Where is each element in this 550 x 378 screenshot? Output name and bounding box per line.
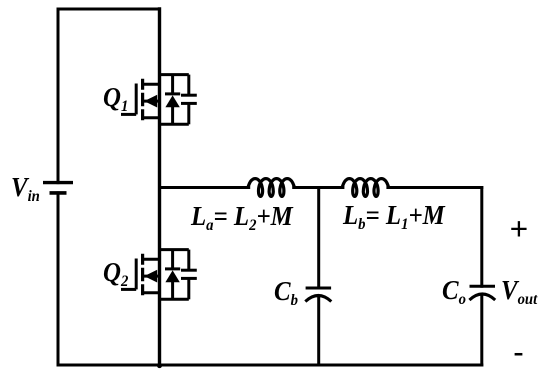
Q1 gate plate bbox=[135, 84, 138, 115]
Q1 snubber branch bottom wire bbox=[160, 123, 189, 126]
label Lb = L1+M bbox=[343, 202, 445, 233]
Q2 body diode cathode lead bbox=[171, 250, 174, 269]
Q2 body arrow bbox=[144, 270, 157, 283]
Q1 body diode cathode bar bbox=[165, 92, 180, 95]
Q2 body stub bbox=[143, 275, 160, 278]
Q1 drain stub bbox=[143, 83, 160, 86]
wire: top rail from Vin+ to Q1 drain bbox=[58, 8, 160, 11]
Q2 gate plate bbox=[135, 259, 138, 290]
wire: switch node to inductor La bbox=[160, 186, 249, 189]
label Q1 bbox=[103, 84, 128, 115]
label Q2 bbox=[103, 259, 128, 290]
label Vout bbox=[501, 277, 537, 308]
Q1 gate lead bbox=[121, 113, 136, 116]
wire: Cb branch lower bbox=[317, 297, 320, 365]
wire: La to Lb (node with Cb tap) bbox=[294, 186, 343, 189]
Q1 body stub bbox=[143, 100, 160, 103]
label output minus polarity bbox=[514, 337, 524, 367]
Q2 gate lead bbox=[121, 288, 136, 291]
capacitor Cb curved plate bbox=[305, 296, 331, 302]
Q1 snubber branch top wire bbox=[160, 73, 189, 76]
wire: bottom ground rail bbox=[58, 364, 482, 367]
Q2 body diode triangle bbox=[165, 270, 179, 282]
Q1 body diode cathode lead bbox=[171, 75, 174, 94]
Q1 parasitic capacitor top plate bbox=[181, 94, 197, 97]
Q2 source stub bbox=[143, 291, 160, 294]
label Vin bbox=[11, 174, 40, 205]
wire: left rail lower (Vin -) bbox=[57, 193, 60, 365]
wire: left rail upper (Vin +) bbox=[57, 9, 60, 183]
transistor Q1 MOSFET symbol bbox=[121, 79, 160, 120]
Q1 source stub bbox=[143, 116, 160, 119]
inductor La coil bbox=[248, 179, 294, 197]
Q2 parasitic capacitor top plate bbox=[181, 269, 197, 272]
Q1 body arrow bbox=[144, 95, 157, 108]
Q2 parasitic capacitor top lead bbox=[187, 250, 190, 271]
label output plus polarity bbox=[510, 214, 529, 247]
wire: right rail lower from Co to ground bbox=[480, 296, 483, 365]
capacitor Cb top plate bbox=[306, 287, 332, 290]
Q2 channel (dashed) bbox=[141, 254, 144, 295]
label Cb bbox=[274, 278, 298, 309]
Q2 snubber branch top wire bbox=[160, 248, 189, 251]
capacitor Co top plate bbox=[470, 285, 496, 288]
label La = L2+M bbox=[191, 203, 293, 234]
junction node: Q2 source at ground rail bbox=[157, 363, 162, 368]
Q2 drain stub bbox=[143, 258, 160, 261]
Q2 snubber branch bottom wire bbox=[160, 298, 189, 301]
Q2 parasitic capacitor bottom lead bbox=[187, 278, 190, 299]
voltage source Vin (battery) short plate bbox=[50, 191, 67, 195]
Q1 channel (dashed) bbox=[141, 79, 144, 120]
inductor Lb coil bbox=[342, 179, 388, 197]
Q2 body diode cathode bar bbox=[165, 267, 180, 270]
Q2 parasitic capacitor bottom plate bbox=[181, 277, 197, 280]
wire: right rail upper to Co bbox=[480, 188, 483, 287]
wire: Cb branch upper bbox=[317, 188, 320, 289]
wire: half-bridge vertical (Q1/Q2 leg) bbox=[158, 9, 161, 365]
label Co bbox=[442, 277, 466, 308]
Q1 body diode triangle bbox=[165, 95, 179, 107]
Q1 parasitic capacitor top lead bbox=[187, 75, 190, 96]
wire: Lb to output rail bbox=[388, 186, 482, 189]
Q1 parasitic capacitor bottom lead bbox=[187, 103, 190, 124]
voltage source Vin (battery) long plate bbox=[43, 181, 73, 184]
transistor Q2 MOSFET symbol bbox=[121, 254, 160, 295]
capacitor Co curved plate bbox=[469, 294, 495, 300]
Q2 body diode anode lead bbox=[171, 282, 174, 299]
Q1 parasitic capacitor bottom plate bbox=[181, 102, 197, 105]
Q1 body diode anode lead bbox=[171, 107, 174, 124]
